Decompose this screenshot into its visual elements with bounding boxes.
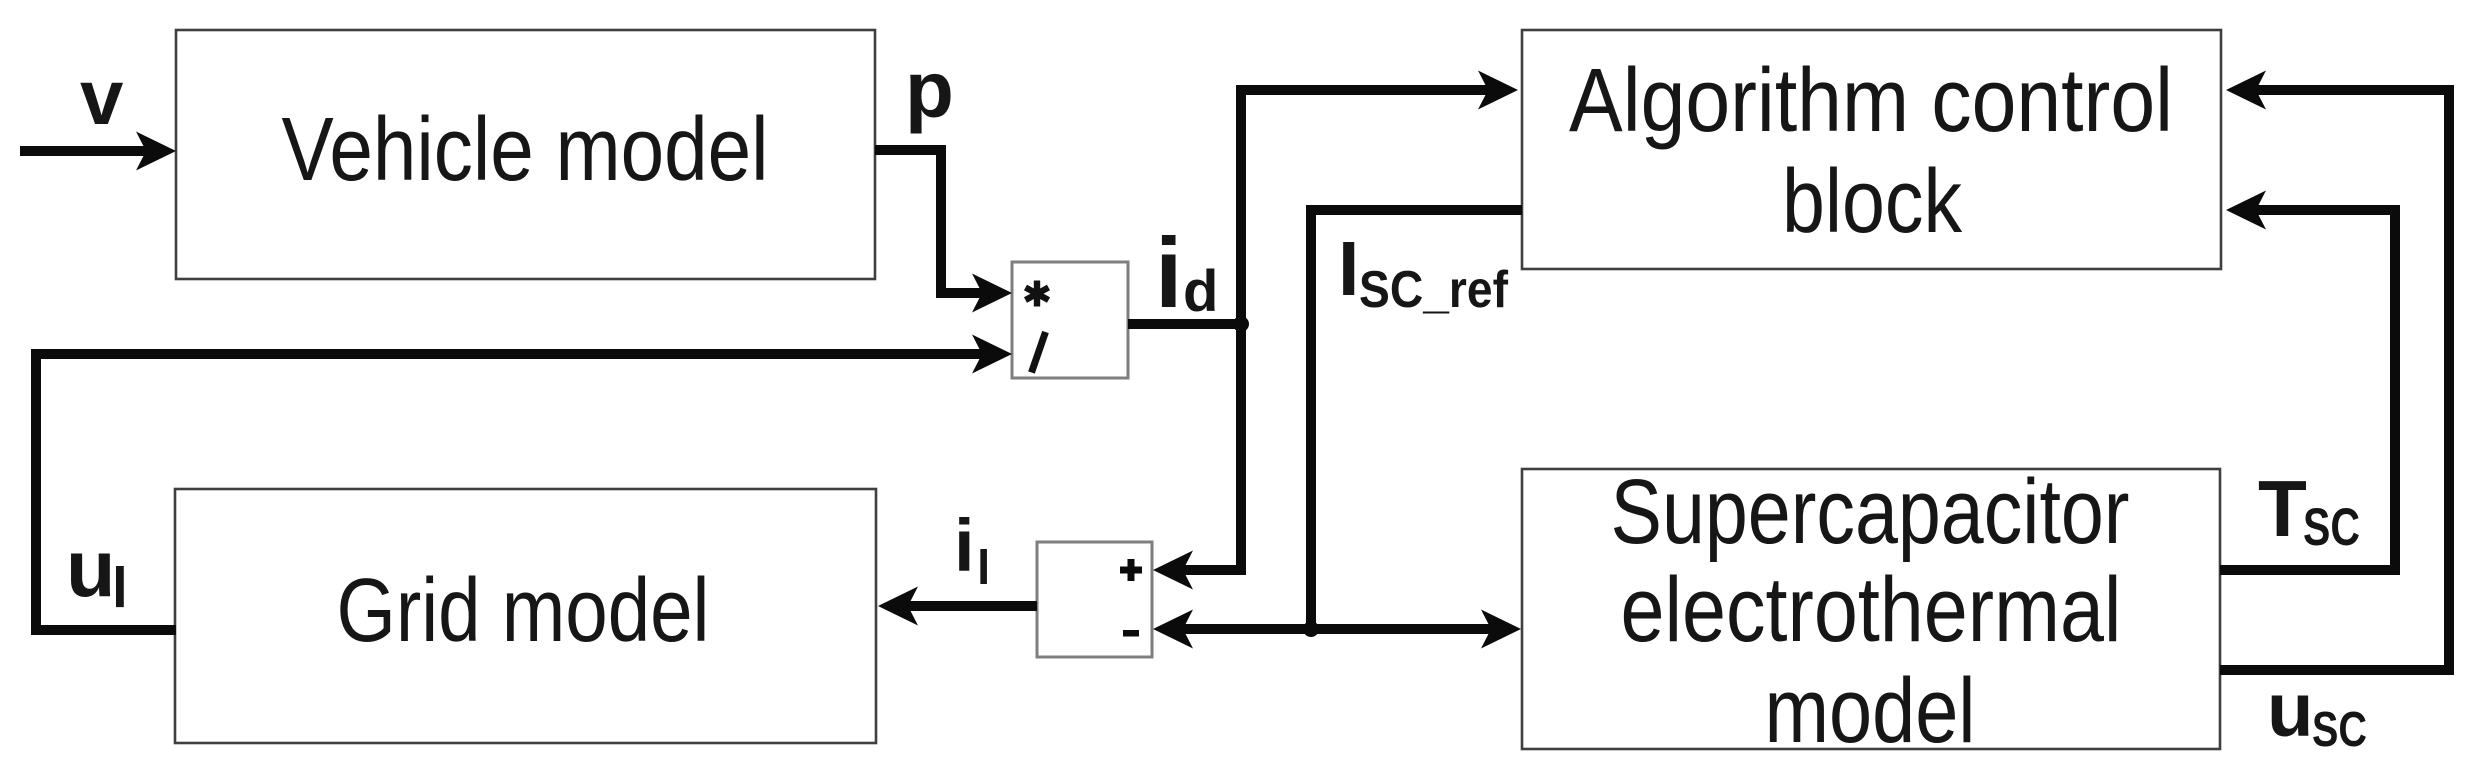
svg-text:electrothermal: electrothermal <box>1621 559 2122 661</box>
junction dot on minus line <box>1303 621 1319 637</box>
svg-text:l: l <box>977 542 990 595</box>
wire: u_SC feedback from Supercapacitor to Algorithm control <box>2220 71 2449 671</box>
wire: u_l feedback from Grid model to product divide input <box>36 335 1012 631</box>
svg-text:u: u <box>66 524 115 614</box>
svg-text:l: l <box>112 556 128 620</box>
label T_SC <box>2258 464 2360 557</box>
svg-text:i: i <box>1155 217 1183 328</box>
label u_l <box>66 524 128 620</box>
wire: p from Vehicle model to product input <box>875 150 1012 313</box>
block U1: Vehicle model <box>176 30 875 279</box>
wire: i_d from product output to junction <box>1128 319 1241 329</box>
wire: i_l from sum output to Grid model <box>878 587 1037 626</box>
product block X1 (* /) <box>1012 262 1128 378</box>
wire: sum minus input to Supercapacitor model (double-headed) <box>1153 610 1521 649</box>
svg-text:d: d <box>1183 259 1218 324</box>
svg-text:v: v <box>80 53 124 141</box>
svg-text:SC_ref: SC_ref <box>1359 261 1509 319</box>
wire: v input arrow into Vehicle model <box>20 132 176 171</box>
block U4: Supercapacitor electrothermal model <box>1522 461 2220 762</box>
svg-text:I: I <box>1338 226 1359 312</box>
label u_SC <box>2267 668 2367 757</box>
block U3: Grid model <box>175 489 876 743</box>
svg-text:Supercapacitor: Supercapacitor <box>1611 461 2130 563</box>
block U2: Algorithm control block <box>1522 30 2221 269</box>
svg-text:T: T <box>2258 464 2307 553</box>
wire: I_SC_ref from Algorithm control block down to minus line <box>1311 210 1522 629</box>
label I_SC_ref <box>1338 226 1509 319</box>
label i_d <box>1155 217 1218 328</box>
svg-text:p: p <box>905 45 954 134</box>
svg-text:u: u <box>2267 668 2313 753</box>
label i_l <box>954 504 990 595</box>
svg-text:SC: SC <box>2312 703 2367 757</box>
junction dot on i_d <box>1233 316 1249 332</box>
svg-text:Vehicle model: Vehicle model <box>282 100 769 200</box>
svg-text:i: i <box>954 504 975 587</box>
svg-text:model: model <box>1765 660 1976 762</box>
svg-text:SC: SC <box>2303 498 2360 557</box>
svg-text:Grid model: Grid model <box>337 561 710 661</box>
wire: i_d trunk to Algorithm control block and down to sum plus input <box>1153 71 1518 590</box>
wire: T_SC feedback from Supercapacitor to Algorithm control <box>2220 191 2395 571</box>
sum block S1 (+ -) <box>1037 542 1152 657</box>
svg-text:block: block <box>1782 152 1963 252</box>
svg-text:Algorithm control: Algorithm control <box>1569 51 2173 151</box>
